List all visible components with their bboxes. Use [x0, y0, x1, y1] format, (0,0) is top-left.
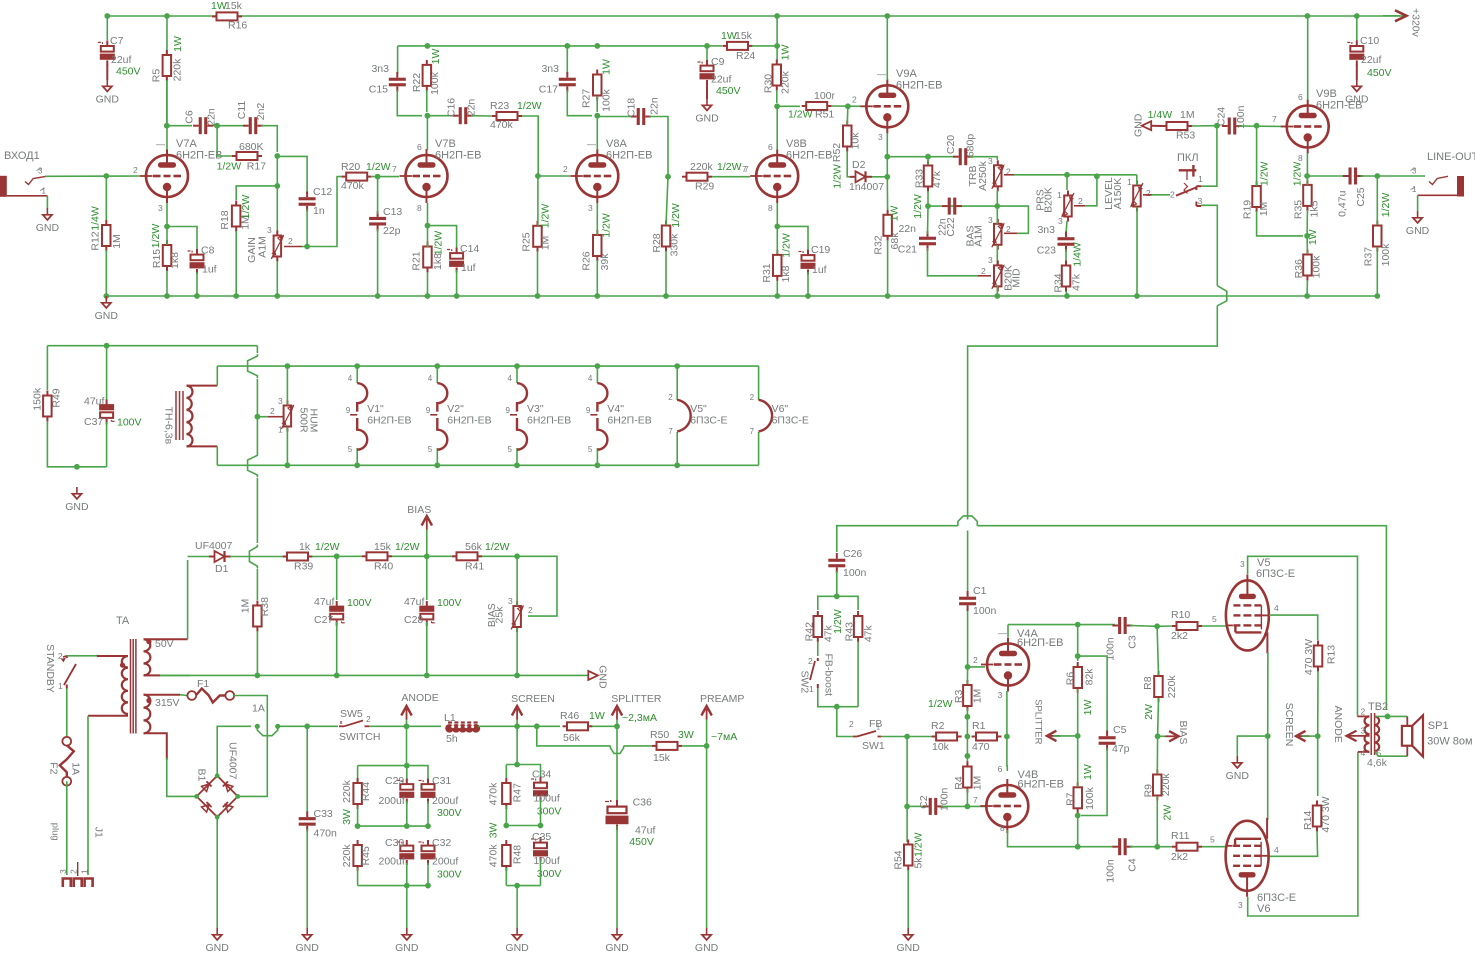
- wire C8 bottom to ground rail: [196, 272, 198, 296]
- wire R15 top: [166, 227, 168, 246]
- junction C17 rail: [564, 43, 570, 49]
- svg-text:1W: 1W: [172, 36, 184, 52]
- wire R33 top: [927, 157, 929, 165]
- wire R8 top to C3 node: [1157, 626, 1158, 675]
- junction TRB wiper node: [1064, 172, 1070, 178]
- net flag ANODE left at TB2 center tap: [1347, 735, 1370, 737]
- svg-text:SP1: SP1: [1428, 720, 1449, 732]
- svg-text:C33: C33: [314, 808, 333, 820]
- wire C21 bottom to MID wiper: [928, 248, 979, 276]
- wire MID bottom to ground rail: [996, 286, 998, 296]
- svg-text:25k: 25k: [494, 606, 506, 624]
- wire input to V7A grid: [45, 175, 140, 177]
- svg-text:1/2W: 1/2W: [912, 194, 924, 219]
- junction tone mid node: [925, 203, 931, 209]
- tube V6 6П3С-Е pentode mirrored: [1226, 821, 1269, 891]
- svg-text:GND: GND: [1132, 113, 1144, 137]
- svg-text:2: 2: [270, 406, 275, 416]
- transformer TA 315V winding: [144, 695, 151, 734]
- junction R7 bottom: [1075, 813, 1081, 819]
- svg-text:GND: GND: [1406, 225, 1430, 237]
- svg-text:1/2W: 1/2W: [517, 100, 542, 112]
- svg-text:100k: 100k: [1084, 786, 1096, 810]
- wire R4 bottom to V4B grid node: [966, 789, 968, 806]
- svg-text:22n: 22n: [206, 108, 218, 126]
- wire C20 to TRB top: [970, 157, 997, 160]
- wire GAIN bottom to ground rail: [276, 261, 278, 296]
- wire R49 left branch: [46, 346, 48, 390]
- resistor R23 470k 1/2W: [492, 115, 497, 117]
- wire anode bank bottom row: [357, 868, 359, 886]
- svg-text:2: 2: [852, 95, 857, 105]
- resistor R45 220k 3W: [357, 840, 359, 845]
- wire R53 to C24 node: [1192, 125, 1217, 127]
- wire R17 node right to C12 top: [277, 156, 307, 194]
- svg-text:1W: 1W: [1082, 700, 1094, 716]
- wire C33 to ground: [306, 829, 308, 928]
- wire bridge output up to B+ row: [217, 726, 251, 776]
- wire V8B plate up to node: [776, 106, 778, 150]
- svg-text:R43: R43: [843, 622, 855, 641]
- svg-text:6Н2П-ЕВ: 6Н2П-ЕВ: [447, 415, 491, 427]
- svg-text:9: 9: [426, 406, 431, 415]
- diode D1 UF4007: [209, 556, 215, 558]
- junction R18 ground: [233, 293, 239, 299]
- wire C21 top from mid node: [927, 206, 930, 234]
- svg-text:3: 3: [38, 167, 43, 176]
- svg-text:R41: R41: [465, 561, 484, 573]
- svg-text:1n4007: 1n4007: [849, 181, 884, 193]
- svg-text:1/2W: 1/2W: [315, 541, 340, 553]
- svg-text:470 3W: 470 3W: [1320, 796, 1332, 832]
- svg-text:1/4W: 1/4W: [1148, 109, 1173, 121]
- wire R28 top: [666, 177, 668, 225]
- wire R54 to ground: [907, 870, 909, 928]
- resistor R10 2k2: [1172, 625, 1177, 627]
- svg-text:1uf: 1uf: [812, 264, 827, 276]
- svg-text:R17: R17: [247, 161, 266, 173]
- svg-text:1M: 1M: [539, 236, 551, 251]
- wire C33 down: [306, 726, 308, 813]
- svg-text:—: —: [998, 628, 1007, 638]
- wire R19 top: [1256, 126, 1258, 186]
- wire R7 bottom to cathode row: [1077, 816, 1079, 847]
- svg-text:100n: 100n: [1105, 859, 1117, 883]
- wire bridge bottom to ground: [216, 817, 218, 928]
- junction R1 right V4A cathode: [1004, 734, 1010, 740]
- svg-text:GND: GND: [505, 942, 529, 953]
- junction C27 top: [334, 553, 340, 559]
- resistor R6 82k 1W: [1077, 662, 1079, 667]
- svg-text:7: 7: [742, 164, 747, 174]
- wire SW5 to anode node: [369, 725, 441, 727]
- svg-text:15k: 15k: [225, 0, 243, 12]
- svg-text:R19: R19: [1242, 200, 1254, 219]
- wire anode bank to ground: [406, 886, 408, 928]
- wire junction to C14: [428, 226, 457, 248]
- junction R2-R1-R3 node: [965, 734, 971, 740]
- svg-text:1k8: 1k8: [780, 265, 792, 282]
- svg-text:450V: 450V: [629, 836, 654, 848]
- wire C6 to C11: [213, 125, 245, 127]
- wire R28 bottom to ground rail: [665, 251, 667, 296]
- wire plate node right to C18: [597, 116, 633, 118]
- resistor R43 47k 1/2W: [857, 611, 859, 616]
- svg-text:100k: 100k: [1310, 255, 1322, 279]
- svg-text:8: 8: [417, 203, 422, 213]
- svg-text:R18: R18: [219, 210, 231, 229]
- tube V4A 6Н2П-ЕВ triode: [987, 644, 1029, 686]
- svg-text:C12: C12: [313, 186, 332, 198]
- wire D1 to R39: [230, 556, 284, 558]
- wire LEVEL wiper to PKL switch: [1143, 194, 1152, 196]
- svg-text:R20: R20: [341, 161, 360, 173]
- wire TRB wiper right to level node: [1004, 174, 1014, 176]
- wire C2 left lead: [907, 805, 923, 807]
- svg-text:1k8: 1k8: [169, 252, 181, 269]
- svg-text:200uf: 200uf: [432, 856, 458, 868]
- svg-text:100V: 100V: [347, 597, 372, 609]
- svg-text:1uf: 1uf: [461, 262, 476, 274]
- wire R34 bottom to ground rail: [1066, 291, 1067, 296]
- svg-text:3: 3: [58, 869, 68, 874]
- svg-text:6П3С-Е: 6П3С-Е: [1256, 568, 1295, 580]
- svg-text:100n: 100n: [973, 605, 997, 617]
- wire rail to R24: [707, 45, 722, 47]
- wire C7 top: [106, 16, 108, 40]
- tube V7B 6Н2П-ЕВ triode: [406, 155, 448, 197]
- resistor R13 470 3W: [1317, 641, 1319, 646]
- junction V9A cathode / tone stack: [884, 154, 890, 160]
- junction R17 right node: [274, 153, 280, 159]
- svg-text:3: 3: [267, 225, 272, 235]
- svg-text:GND: GND: [695, 942, 719, 953]
- svg-text:7: 7: [973, 795, 978, 805]
- svg-text:2: 2: [1361, 707, 1366, 717]
- svg-text:—: —: [877, 69, 886, 79]
- svg-text:C23: C23: [1037, 245, 1056, 257]
- wire C12 bottom to wiper node: [306, 209, 308, 247]
- svg-text:150k: 150k: [32, 387, 44, 411]
- svg-text:2: 2: [366, 714, 371, 724]
- svg-text:3: 3: [988, 255, 993, 265]
- svg-text:STANDBY: STANDBY: [44, 644, 56, 693]
- svg-text:R32: R32: [872, 235, 884, 254]
- resistor R37 100k 1/2W: [1376, 221, 1378, 226]
- junction R25 ground: [535, 293, 541, 299]
- junction R15 ground: [164, 293, 170, 299]
- svg-text:C6: C6: [184, 110, 196, 124]
- wire FB line from output transformer: [837, 525, 958, 527]
- wire D2 node down to R32: [886, 177, 888, 210]
- svg-text:+320v: +320v: [1410, 8, 1422, 38]
- svg-text:V9B: V9B: [1316, 88, 1337, 100]
- wire V8A cathode to R26: [596, 203, 598, 235]
- svg-text:R46: R46: [560, 710, 579, 722]
- svg-text:V1": V1": [367, 403, 384, 415]
- capacitor C2 100n: [923, 805, 929, 807]
- svg-text:F2: F2: [48, 762, 60, 774]
- junction C2 left: [904, 804, 910, 810]
- wire level node to LEVEL pot: [1067, 174, 1137, 176]
- svg-text:3: 3: [998, 690, 1003, 700]
- svg-text:2: 2: [973, 655, 978, 665]
- svg-text:C25: C25: [1355, 187, 1367, 206]
- wire C17 bottom to grid node: [567, 90, 592, 116]
- junction C9 rail: [704, 43, 710, 49]
- svg-text:SW5: SW5: [340, 708, 363, 720]
- resistor R8 220k 2W: [1158, 671, 1160, 676]
- svg-text:C31: C31: [432, 775, 451, 787]
- wire elevation feed down with jogs: [256, 346, 258, 353]
- resistor R42 47k 1/2W: [817, 611, 819, 616]
- svg-text:2: 2: [808, 656, 813, 666]
- junction V9A plate top rail: [884, 13, 890, 19]
- svg-text:6П3С-Е: 6П3С-Е: [772, 415, 809, 427]
- svg-text:V7B: V7B: [435, 138, 456, 150]
- wire screen bank to ground: [516, 886, 518, 928]
- wire tone stack top row: [887, 156, 956, 158]
- svg-text:9: 9: [346, 406, 351, 415]
- capacitor C9 22uf 450V electrolytic: [706, 60, 708, 66]
- wire V5 screen pin4: [1269, 615, 1318, 640]
- wire 315V bottom to bridge: [167, 758, 197, 796]
- svg-text:~2,3мА: ~2,3мА: [622, 712, 657, 724]
- svg-text:GND: GND: [96, 94, 120, 106]
- svg-text:47k: 47k: [1071, 273, 1083, 291]
- svg-text:BIAS: BIAS: [407, 504, 431, 516]
- resistor R36 100k 1W: [1306, 250, 1308, 255]
- ground symbol main rail: [105, 296, 107, 302]
- svg-text:220k: 220k: [1166, 675, 1178, 699]
- wire standby top to TA primary: [67, 655, 97, 657]
- svg-text:plug: plug: [49, 823, 60, 841]
- resistor R18 1M 1/2W: [235, 201, 237, 206]
- svg-text:C27: C27: [314, 614, 333, 626]
- svg-text:R29: R29: [695, 181, 714, 193]
- svg-text:1W: 1W: [780, 45, 792, 61]
- svg-text:C21: C21: [898, 244, 917, 256]
- svg-text:GND: GND: [395, 942, 419, 953]
- potentiometer HUM 500R: [286, 401, 288, 406]
- resistor R44 220k 3W: [357, 778, 359, 783]
- wire HUM top: [286, 366, 288, 405]
- wire cathode junction to R31: [776, 226, 778, 254]
- svg-text:56k: 56k: [465, 541, 483, 553]
- svg-text:100uf: 100uf: [534, 855, 560, 867]
- wire PKL net below hop to C1: [967, 531, 969, 595]
- tube heater V1" 6Н2П-ЕВ: [354, 363, 360, 369]
- tube V8B 6Н2П-ЕВ triode: [756, 155, 798, 197]
- wire C26 top from FB line: [836, 525, 838, 552]
- wire row to R4: [966, 737, 968, 766]
- wire from 50V winding to D1: [188, 556, 209, 558]
- svg-text:1/2W: 1/2W: [1380, 193, 1392, 218]
- junction wiper-C12 node: [304, 244, 310, 250]
- svg-text:4,6k: 4,6k: [1367, 757, 1388, 769]
- svg-text:R33: R33: [914, 169, 926, 188]
- wire F1 to bridge right: [234, 696, 267, 797]
- wire TB2 secondary bottom to speaker: [1375, 751, 1407, 756]
- resistor R27 100k 1W: [596, 70, 598, 75]
- net label +320v arrow: [1395, 10, 1407, 21]
- svg-text:47k: 47k: [931, 170, 943, 188]
- svg-text:R48: R48: [511, 845, 523, 864]
- svg-text:C37: C37: [84, 416, 103, 428]
- svg-text:ВХОД1: ВХОД1: [4, 150, 40, 162]
- svg-text:6Н2П-ЕВ: 6Н2П-ЕВ: [606, 150, 652, 162]
- svg-text:3: 3: [1240, 559, 1245, 569]
- svg-text:47uf: 47uf: [404, 596, 425, 608]
- resistor R3 1M 1/2W: [966, 680, 968, 685]
- svg-text:C26: C26: [843, 548, 862, 560]
- tube V9A 6Н2П-ЕВ triode: [866, 85, 908, 127]
- junction C3 right R10 R8: [1154, 623, 1160, 629]
- svg-text:6Н2П-ЕВ: 6Н2П-ЕВ: [435, 150, 481, 162]
- junction below row: [965, 753, 971, 759]
- svg-text:C8: C8: [201, 245, 215, 257]
- wire input node down to R12: [105, 176, 107, 221]
- wire R47 top: [505, 765, 507, 782]
- wire R12 to ground rail: [105, 250, 107, 296]
- junction R21 ground: [425, 293, 431, 299]
- wire heater top rail: [217, 365, 758, 367]
- junction R41 right node: [514, 553, 520, 559]
- svg-text:1/2W: 1/2W: [217, 161, 242, 173]
- wire plate node to V7B plate: [426, 116, 428, 150]
- svg-text:1uf: 1uf: [202, 264, 217, 276]
- resistor R38 1M heater bleed: [256, 601, 258, 606]
- wire splitter node down to C36: [616, 726, 618, 800]
- svg-text:1/2W: 1/2W: [240, 195, 252, 220]
- junction R51 right / R52 top: [845, 103, 851, 109]
- resistor R4 1M: [966, 762, 968, 767]
- wire hum wiper segment: [256, 407, 258, 425]
- svg-text:1M: 1M: [1258, 202, 1270, 217]
- wire C28 bottom: [426, 622, 428, 675]
- svg-text:1/2W: 1/2W: [1259, 161, 1271, 186]
- svg-text:C32: C32: [432, 837, 451, 849]
- svg-text:1M: 1M: [972, 689, 984, 704]
- svg-text:R1: R1: [972, 720, 986, 732]
- junction V8B plate node: [774, 103, 780, 109]
- svg-text:R25: R25: [520, 232, 532, 251]
- svg-text:V5": V5": [690, 403, 707, 415]
- cathode network V7B: junction: [425, 223, 431, 229]
- junction R27 rail: [594, 43, 600, 49]
- wire R26 bottom to ground rail: [596, 260, 598, 296]
- ground under input jack: [46, 208, 48, 214]
- wire B+ row hop under F1 feed: [257, 726, 277, 735]
- svg-text:R53: R53: [1176, 130, 1195, 142]
- svg-text:5: 5: [1210, 835, 1215, 845]
- svg-text:1W: 1W: [1307, 229, 1319, 245]
- resistor R26 39k 1/2W: [596, 230, 598, 235]
- svg-text:315V: 315V: [155, 697, 180, 709]
- ground under preamp node: [706, 928, 708, 934]
- wire BAS bottom to MID pot: [996, 245, 998, 265]
- net flag SPLITTER left: [1047, 731, 1057, 741]
- resistor R2 10k: [932, 736, 937, 738]
- svg-text:470k: 470k: [487, 782, 499, 806]
- svg-text:A1M: A1M: [256, 236, 268, 258]
- svg-text:2: 2: [981, 266, 986, 276]
- wire rail left end down to C15: [397, 46, 399, 74]
- svg-text:220k: 220k: [1160, 773, 1172, 797]
- svg-text:680K: 680K: [239, 141, 264, 153]
- svg-text:4: 4: [508, 374, 513, 383]
- svg-text:200uf: 200uf: [432, 795, 458, 807]
- svg-text:1k5: 1k5: [1309, 200, 1321, 217]
- svg-text:1W: 1W: [888, 206, 900, 222]
- svg-text:2: 2: [563, 164, 568, 174]
- svg-text:R42: R42: [804, 622, 816, 641]
- wire loop bottom to SW1: [837, 707, 853, 737]
- junction R26 ground: [594, 293, 600, 299]
- wire R17 node down to GAIN pot: [276, 156, 278, 231]
- wire LEVEL pin1 top: [1136, 175, 1138, 185]
- svg-text:R54: R54: [893, 850, 905, 869]
- junction R12 ground: [103, 293, 109, 299]
- wire C13 bottom to ground rail: [377, 229, 379, 296]
- wire junction down to V4B plate: [1006, 737, 1008, 772]
- wire V4A grid node to R3 top: [966, 667, 968, 684]
- svg-text:D1: D1: [215, 563, 229, 575]
- junction R37 ground: [1374, 293, 1380, 299]
- wire R35 bottom to node: [1306, 210, 1308, 236]
- junction C33 tap: [304, 723, 310, 729]
- svg-text:4: 4: [1274, 603, 1279, 613]
- wire R15 bottom to ground rail: [166, 271, 168, 297]
- capacitor C10 22uf 450V electrolytic: [1356, 40, 1358, 46]
- potentiometer TRB A250k treble: [997, 160, 999, 165]
- wire C1 to V4A grid: [967, 608, 969, 667]
- tube heater V6" 6П3С-Е: [758, 366, 760, 400]
- svg-text:1/4W: 1/4W: [89, 206, 101, 231]
- wire PKL contact1 up to C24 node: [1201, 126, 1217, 187]
- wire R8 bottom to bias node: [1157, 698, 1160, 736]
- capacitor C13 22p: [377, 211, 379, 217]
- svg-text:R50: R50: [650, 729, 669, 741]
- net flag SCREEN left: [1296, 731, 1306, 741]
- wire C13 top: [377, 177, 379, 214]
- svg-text:V3": V3": [527, 403, 544, 415]
- svg-text:R35: R35: [1292, 200, 1304, 219]
- svg-text:R4: R4: [953, 776, 965, 790]
- svg-text:3W: 3W: [678, 729, 694, 741]
- svg-text:1M: 1M: [239, 599, 251, 614]
- ground under R54: [907, 928, 909, 934]
- svg-text:R21: R21: [411, 251, 423, 270]
- wire V4B grid to tube: [967, 805, 985, 807]
- tube heater V3" 6Н2П-ЕВ: [514, 363, 520, 369]
- wire cathode node to D2 node: [872, 157, 887, 177]
- svg-text:5: 5: [508, 445, 513, 454]
- svg-text:8: 8: [1298, 153, 1303, 163]
- wire C24 to V9B grid: [1239, 125, 1286, 128]
- svg-text:TA: TA: [116, 615, 130, 627]
- wire C5 top branch: [1078, 656, 1107, 733]
- svg-text:3: 3: [508, 596, 513, 606]
- resistor R5 220k 1W: [166, 50, 168, 55]
- resistor R34 47k 1/4W: [1065, 261, 1067, 266]
- resistor R33 47k 1/2W: [927, 161, 929, 166]
- wire R24 right to V8B plate branch: [752, 45, 777, 47]
- wire FB-boost loop: [818, 596, 858, 610]
- wire C26 bottom to FB-boost loop: [836, 571, 838, 596]
- svg-text:R12: R12: [89, 231, 101, 250]
- wire R29 to V8B grid: [712, 176, 750, 178]
